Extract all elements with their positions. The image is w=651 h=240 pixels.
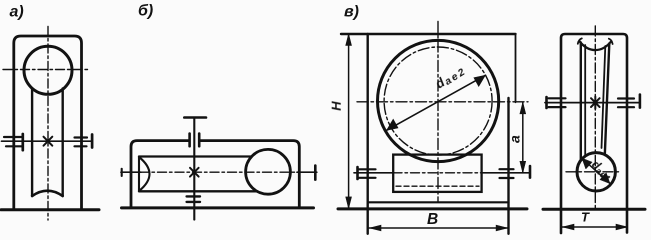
X node mark B	[190, 168, 199, 177]
top wall tick left B	[188, 134, 191, 147]
right shaft end tick V2	[639, 95, 642, 108]
worm cylinder bottom line B	[139, 190, 258, 192]
right shaft end tick V	[529, 166, 532, 178]
a arrow up	[520, 102, 526, 114]
top wall tick right B	[198, 134, 201, 147]
X node mark A	[44, 137, 53, 146]
horizontal centerline of wheel A	[3, 69, 90, 71]
bottom bearing stroke lower B	[187, 201, 200, 203]
wheel axis B solid right	[297, 171, 317, 173]
worm circle V2	[577, 153, 615, 191]
T arrow left	[563, 224, 575, 230]
wheel axis V2	[545, 102, 640, 104]
housing V right upper wall	[515, 34, 517, 102]
dimension H line	[348, 34, 350, 208]
housing V2 outline	[561, 34, 627, 233]
wheel rim right line A	[62, 89, 64, 197]
dimension T line	[561, 226, 627, 228]
right bearing stroke upper A	[75, 136, 88, 138]
right bearing stroke lower A	[75, 145, 87, 147]
gorge arc end hook right V2	[609, 39, 613, 44]
T arrow right	[616, 224, 628, 230]
worm arc at slot bottom A	[32, 191, 63, 196]
vertical shaft line B	[193, 118, 195, 220]
wheel outer circle V	[378, 40, 499, 161]
dimension B line	[368, 227, 509, 229]
axis left tick B	[121, 169, 123, 176]
left shaft tick V	[356, 167, 359, 179]
worm axis V dashdot	[393, 172, 482, 174]
wheel rim outer right V2	[605, 44, 610, 156]
svg-text:б): б)	[138, 3, 153, 20]
worm housing rect V	[393, 155, 481, 192]
housing V bottom edge	[368, 201, 509, 203]
wheel vertical centerline V	[437, 22, 439, 203]
X node mark V2	[591, 97, 600, 109]
housing B outline right part	[200, 141, 299, 208]
svg-text:Н: Н	[329, 101, 344, 111]
worm axis V solid left	[354, 172, 394, 174]
worm hidden line V	[396, 185, 479, 187]
ground line V2	[543, 208, 645, 211]
wheel axis B solid left	[121, 171, 141, 173]
housing A outline	[14, 36, 82, 210]
worm shaft axis A	[2, 140, 92, 142]
B arrow right	[496, 225, 508, 231]
wheel circle A	[24, 46, 72, 94]
left bearing stroke upper V	[359, 168, 376, 170]
right bearing stroke upper V	[500, 168, 514, 170]
worm left end face B	[138, 157, 140, 192]
bottom bearing stroke upper B	[187, 195, 200, 197]
left shaft tick V2	[545, 97, 548, 108]
wheel rim outer left V2	[580, 43, 582, 162]
worm end arc B	[139, 157, 150, 191]
d_ae2 dimension line	[387, 75, 486, 130]
wheel rim left line A	[31, 89, 33, 197]
svg-text:Т: Т	[581, 209, 590, 224]
right bearing stroke upper V2	[618, 97, 634, 99]
wheel pitch circle V	[384, 47, 492, 155]
H arrow down	[346, 197, 352, 209]
d_ae2 arrow lower-left	[387, 119, 398, 130]
shaft top T-bar B	[184, 116, 206, 119]
right shaft end tick A	[91, 135, 94, 148]
wheel rim inner right V2	[602, 46, 606, 148]
wheel gorge arc V2	[580, 42, 611, 51]
svg-text:В: В	[427, 211, 438, 228]
left bearing stroke upper A	[4, 136, 21, 138]
ground line V	[338, 207, 527, 210]
left bearing stroke lower V	[359, 177, 376, 179]
left shaft tick A	[21, 134, 24, 150]
right bearing stroke lower V2	[618, 106, 634, 108]
housing V right wall	[507, 98, 509, 234]
d_ae2 arrow upper-right	[474, 75, 485, 86]
right bearing stroke lower V	[500, 177, 514, 179]
svg-text:в): в)	[344, 4, 359, 21]
d_a1 arrow upper-left	[582, 158, 592, 169]
ground line A	[1, 208, 99, 211]
wheel horizontal centerline V	[357, 101, 528, 103]
left bearing stroke lower A	[6, 145, 23, 147]
B arrow left	[370, 225, 382, 231]
wheel rim inner left V2	[584, 45, 586, 156]
wheel axis B dashdot	[140, 171, 298, 173]
axis right end tick B	[314, 166, 317, 180]
housing B outline left part	[131, 141, 189, 208]
a arrow down	[520, 161, 526, 173]
left bearing stroke upper V2	[549, 97, 566, 99]
svg-text:а: а	[507, 135, 523, 143]
svg-text:а): а)	[10, 4, 24, 21]
worm cylinder top line B	[139, 155, 253, 157]
H arrow up	[346, 34, 352, 46]
ground line B	[122, 206, 314, 209]
worm axis V solid right	[481, 172, 530, 174]
d_a1 arrow lower-right	[600, 173, 610, 184]
vertical centerline A	[47, 27, 49, 221]
central plane centerline V2	[594, 26, 596, 209]
housing V top edge with H extension	[341, 33, 516, 35]
housing V left wall	[367, 34, 369, 234]
wheel circle B	[246, 149, 291, 194]
d_a1 dimension line	[582, 158, 610, 183]
left bearing stroke lower V2	[549, 106, 566, 108]
worm circle horizontal centerline V2	[566, 171, 622, 173]
dimension a line	[522, 102, 524, 173]
gorge arc end hook left V2	[578, 38, 582, 43]
